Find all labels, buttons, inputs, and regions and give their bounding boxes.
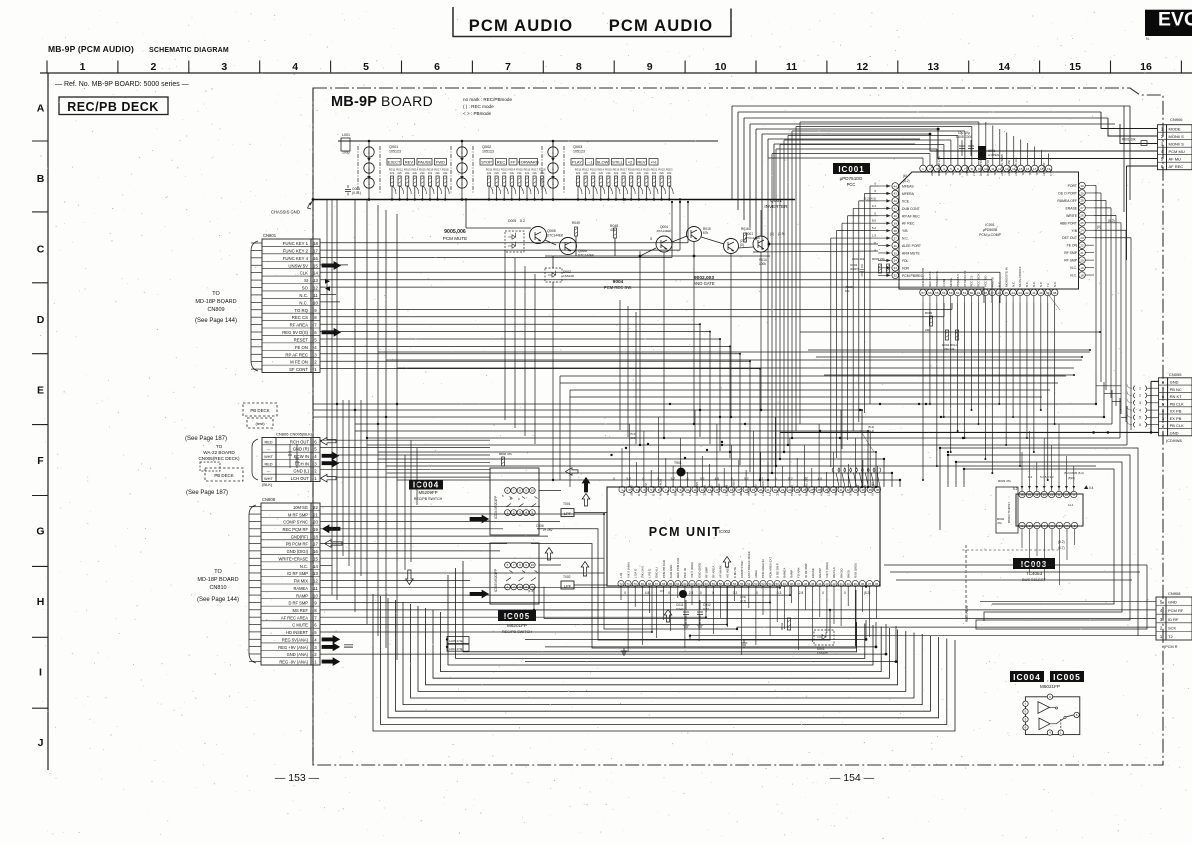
wire main horizontal bus [313, 199, 795, 201]
wire cluster drop verticals [505, 242, 761, 487]
op-amp label IC003 black [1013, 558, 1055, 569]
svg-text:DTC114EK: DTC114EK [745, 236, 760, 240]
title box PCM AUDIO [453, 7, 731, 37]
arrow up into pcm pin [581, 562, 589, 577]
svg-text:65: 65 [669, 582, 673, 586]
svg-text:4: 4 [292, 61, 298, 73]
transistor group Q001 [358, 141, 401, 199]
svg-text:IC004: IC004 [1013, 672, 1041, 682]
svg-text:N.C.: N.C. [958, 170, 962, 176]
svg-text:XX PB: XX PB [1170, 409, 1182, 414]
svg-text:RAMEA: RAMEA [783, 568, 787, 578]
svg-text:(0): (0) [740, 243, 744, 247]
wire horizontal band [313, 404, 1127, 480]
svg-text:N.C.: N.C. [902, 237, 909, 241]
IC001 top pin labels [930, 154, 1053, 176]
svg-text:L001: L001 [342, 133, 350, 137]
svg-text:TO: TO [216, 444, 223, 449]
svg-text:D RE ON P: D RE ON P [775, 563, 779, 578]
svg-text:CN808: CN808 [262, 497, 276, 502]
svg-text:GND (L): GND (L) [293, 469, 309, 474]
svg-text:COMP SYNC: COMP SYNC [740, 561, 744, 578]
svg-text:72: 72 [619, 582, 623, 586]
svg-text:CN810: CN810 [209, 585, 226, 591]
svg-text:VIK 5 (DIGI): VIK 5 (DIGI) [690, 562, 694, 578]
svg-text:2.8: 2.8 [799, 591, 804, 595]
svg-text:10: 10 [313, 300, 318, 305]
svg-text:(BLK): (BLK) [262, 482, 273, 487]
svg-text:18: 18 [313, 241, 318, 246]
svg-text:22k: 22k [502, 171, 507, 175]
svg-text:29: 29 [1080, 191, 1084, 195]
svg-text:22k: 22k [652, 171, 657, 175]
svg-text:(See Page 187): (See Page 187) [186, 490, 228, 496]
function label boxes Q001 [387, 159, 447, 166]
arrow down near pcm [406, 570, 414, 585]
svg-text:54: 54 [942, 291, 946, 295]
svg-text:(1.2): (1.2) [528, 589, 534, 593]
svg-text:CLK: CLK [300, 271, 308, 276]
wire trunk verticals center-left [337, 200, 397, 661]
svg-text:13: 13 [927, 61, 939, 73]
svg-text:38: 38 [1053, 291, 1057, 295]
svg-text:0: 0 [668, 591, 670, 595]
svg-text:Y/B: Y/B [1072, 229, 1078, 233]
svg-text:IC005: IC005 [504, 612, 530, 621]
wire top rail [338, 140, 718, 142]
svg-text:15: 15 [313, 263, 318, 268]
svg-text:GND: GND [1170, 430, 1179, 435]
svg-text:12: 12 [857, 61, 869, 73]
svg-text:IC002: IC002 [719, 529, 731, 534]
svg-text:N.C.: N.C. [300, 564, 308, 569]
dashed box test [247, 418, 273, 428]
svg-text:FUNC KEY 1: FUNC KEY 1 [283, 241, 309, 246]
svg-text:L IN: L IN [619, 573, 623, 578]
svg-text:REC/PB DECK: REC/PB DECK [67, 100, 159, 114]
diode block D005 dashed [505, 231, 524, 252]
svg-text:35: 35 [894, 251, 898, 255]
svg-text:(5.2): (5.2) [1108, 219, 1115, 223]
arrow left hollow at switch top [566, 468, 579, 476]
svg-text:50: 50 [776, 582, 780, 586]
svg-text:27: 27 [1080, 206, 1084, 210]
svg-text:RESET: RESET [294, 337, 309, 342]
IC IC001 body [899, 172, 1079, 289]
svg-text:1SS105: 1SS105 [817, 651, 828, 655]
svg-text:22: 22 [313, 505, 318, 510]
arrow CN808 REG 5V [322, 636, 340, 644]
svg-text:0: 0 [804, 477, 806, 481]
svg-text:RF AREA: RF AREA [290, 323, 309, 328]
svg-text:49: 49 [783, 582, 787, 586]
svg-text:IC003: IC003 [1021, 560, 1047, 569]
IC001 left pins [864, 182, 924, 279]
svg-text:REC: REC [497, 160, 506, 165]
svg-text:41: 41 [840, 582, 844, 586]
svg-text:< > : PBmode: < > : PBmode [463, 111, 492, 116]
svg-text:10: 10 [715, 61, 727, 73]
svg-text:AF REC: AF REC [1169, 164, 1184, 169]
svg-text:SO: SO [302, 286, 309, 291]
svg-text:RCH OUT: RCH OUT [290, 439, 310, 444]
svg-text:MONI/ S: MONI/ S [1169, 134, 1185, 139]
svg-text:46: 46 [998, 291, 1002, 295]
svg-text:EJECT: EJECT [388, 160, 401, 165]
svg-text:CN005(REC DECK): CN005(REC DECK) [198, 456, 240, 461]
svg-text:XCE: XCE [902, 199, 910, 203]
svg-text:67k: 67k [703, 231, 709, 235]
svg-text:22k 22k: 22k 22k [944, 347, 955, 351]
svg-text:10: 10 [531, 489, 535, 493]
svg-text:N.C.: N.C. [1021, 170, 1025, 176]
svg-text:A: A [37, 103, 45, 115]
svg-text:MFEAS: MFEAS [902, 185, 914, 189]
svg-text:10: 10 [531, 563, 535, 567]
svg-text:5.2: 5.2 [520, 219, 525, 223]
svg-text:AF MARK: AF MARK [719, 565, 723, 578]
svg-text:DUB IN: DUB IN [681, 486, 685, 496]
svg-text:19: 19 [1080, 266, 1084, 270]
svg-text:PCC CS: PCC CS [970, 276, 974, 287]
svg-text:N.C.: N.C. [1011, 281, 1015, 287]
grid ruler column ticks [46, 61, 48, 74]
svg-text:GND(DIGI): GND(DIGI) [695, 482, 699, 496]
op-amp pair block [1023, 694, 1080, 735]
svg-text:CN806 CN005(BLK): CN806 CN005(BLK) [276, 432, 313, 437]
svg-text:22k: 22k [420, 171, 425, 175]
resistor bank Q003 [575, 168, 673, 201]
svg-text:REC CS: REC CS [292, 315, 308, 320]
svg-text:WRITE+ERASE: WRITE+ERASE [279, 556, 309, 561]
svg-text:22k: 22k [494, 171, 499, 175]
svg-text:PCM MUTE: PCM MUTE [935, 271, 939, 287]
svg-text:36: 36 [876, 488, 880, 492]
ground under C012 [697, 622, 703, 629]
connector CN806 [262, 438, 320, 482]
svg-text:47: 47 [797, 582, 801, 586]
grid ruler top line [40, 72, 1192, 74]
svg-text:13: 13 [313, 278, 318, 283]
svg-text:36: 36 [875, 582, 879, 586]
svg-text:(CD9/W8: (CD9/W8 [1166, 439, 1182, 443]
wire right nested rectangles around IC003 [940, 448, 1147, 636]
wire transistor cluster links [466, 200, 770, 301]
svg-text:ERASE: ERASE [811, 568, 815, 578]
svg-text:67: 67 [655, 582, 659, 586]
svg-text:54: 54 [747, 582, 751, 586]
svg-text:30: 30 [1080, 184, 1084, 188]
connector CN801 [262, 239, 320, 373]
dashed box REC DECK [200, 462, 220, 471]
svg-text:22k: 22k [629, 171, 634, 175]
svg-text:64: 64 [676, 582, 680, 586]
svg-text:22k: 22k [435, 171, 440, 175]
wire IC001 top pin fan right [986, 122, 1049, 165]
svg-text:0.3: 0.3 [777, 591, 782, 595]
CN055 ground loop wire [780, 381, 1159, 433]
svg-text:FWD: FWD [436, 160, 445, 165]
connector CN908 [1156, 597, 1192, 640]
svg-text:17: 17 [313, 248, 318, 253]
svg-text:22k: 22k [667, 171, 672, 175]
PCM bottom value labels [624, 591, 870, 595]
svg-text:PCM AUDIO: PCM AUDIO [469, 17, 574, 35]
function label boxes Q002 [480, 159, 539, 166]
capacitor C005 C004 above IC001 [959, 140, 974, 156]
svg-text:1: 1 [1139, 386, 1141, 390]
arrow up at switch black [582, 478, 590, 493]
svg-text:FM MIX: FM MIX [294, 579, 309, 584]
svg-text:20: 20 [1080, 258, 1084, 262]
svg-text:MONO/STE IN: MONO/STE IN [1004, 267, 1008, 287]
svg-text:24: 24 [1080, 229, 1084, 233]
svg-text:22k: 22k [659, 171, 664, 175]
svg-text:RXD (DIGI): RXD (DIGI) [854, 563, 858, 578]
svg-text:L001 10k: L001 10k [852, 257, 865, 261]
svg-text:INT SQ TEST: INT SQ TEST [1014, 158, 1018, 177]
svg-text:PB DECK: PB DECK [214, 473, 233, 478]
svg-text:RF SMP: RF SMP [1064, 259, 1078, 263]
svg-text:RM SO: RM SO [839, 568, 843, 578]
svg-text:RM CLK: RM CLK [832, 567, 836, 578]
svg-text:GND: GND [1170, 380, 1179, 385]
svg-text:M FE ON: M FE ON [290, 360, 308, 365]
svg-text:0: 0 [687, 477, 689, 481]
wire CN801 rows to top array [320, 201, 689, 258]
wire nested bottom loops [373, 561, 955, 731]
svg-text:1.9: 1.9 [872, 234, 877, 238]
svg-text:13: 13 [313, 571, 318, 576]
svg-text:N.C.: N.C. [993, 170, 997, 176]
svg-text:R003 22k: R003 22k [872, 257, 885, 261]
svg-text:RACT IN: RACT IN [754, 484, 758, 496]
svg-text:D005: D005 [508, 219, 516, 223]
svg-text:R009: R009 [925, 311, 933, 315]
svg-text:×½: ×½ [651, 160, 657, 165]
svg-text:MS REF: MS REF [293, 608, 309, 613]
svg-text:9: 9 [647, 61, 653, 73]
svg-text:RAMEA OFF: RAMEA OFF [1057, 199, 1077, 203]
svg-text:25: 25 [1080, 221, 1084, 225]
CN055 inline plugs [1127, 384, 1159, 427]
svg-text:61: 61 [698, 582, 702, 586]
junction dots scattered [312, 198, 1105, 648]
svg-text:(0.4): (0.4) [868, 429, 874, 433]
svg-text:DTC144EK: DTC144EK [578, 254, 595, 258]
svg-text:3: 3 [221, 61, 227, 73]
svg-text:RF SMP: RF SMP [930, 165, 934, 176]
svg-text:PB CLK: PB CLK [1170, 423, 1185, 428]
svg-text:ALEE PORT: ALEE PORT [902, 244, 921, 248]
svg-text:MCI: MCI [783, 491, 787, 496]
arrow into IC004 block [470, 515, 489, 523]
svg-text:22k: 22k [397, 171, 402, 175]
svg-text:0.5: 0.5 [660, 589, 665, 593]
svg-text:37: 37 [868, 582, 872, 586]
svg-text:GRASP: GRASP [818, 568, 822, 578]
svg-text:MFERA: MFERA [902, 192, 915, 196]
svg-text:RM SI: RM SI [846, 570, 850, 578]
svg-text:PCM AREA IN: PCM AREA IN [761, 560, 765, 578]
svg-text:STILL: STILL [612, 160, 623, 165]
svg-text:INT B TEST: INT B TEST [1007, 160, 1011, 176]
svg-text:MB-9P: MB-9P [331, 94, 377, 110]
svg-text:PCM MU: PCM MU [1169, 149, 1185, 154]
svg-text:PCM MUTE: PCM MUTE [443, 236, 468, 241]
svg-text:4.5: 4.5 [715, 477, 720, 481]
connector CN808 [261, 503, 320, 665]
svg-text:(0.01): (0.01) [352, 191, 361, 195]
svg-text:50: 50 [970, 291, 974, 295]
svg-text:FD NAK: FD NAK [797, 567, 801, 578]
svg-text:22k: 22k [591, 171, 596, 175]
svg-text:MB-9P (PCM AUDIO): MB-9P (PCM AUDIO) [48, 44, 134, 54]
IC IC002 PCM UNIT body [607, 487, 880, 586]
svg-text:Y/B: Y/B [902, 229, 908, 233]
svg-text:5.2: 5.2 [788, 477, 793, 481]
svg-text:11: 11 [786, 61, 797, 73]
svg-text:PCM AUDIO: PCM AUDIO [609, 17, 714, 35]
svg-text:PLAY: PLAY [572, 160, 582, 165]
svg-text:×2: ×2 [628, 160, 633, 165]
svg-text:FE ON: FE ON [295, 345, 308, 350]
board outline MB-9P [313, 88, 1163, 765]
svg-text:1SS106: 1SS106 [563, 274, 574, 278]
wire IC003 dash line [962, 549, 1058, 551]
svg-text:70: 70 [634, 582, 638, 586]
transformer T901 dot [677, 468, 686, 477]
arrow CN808 REG +9V [322, 643, 340, 651]
svg-text:DTC144EK: DTC144EK [547, 234, 564, 238]
svg-text:REG 5V(ANA): REG 5V(ANA) [282, 637, 309, 642]
grid row ticks [32, 140, 49, 142]
svg-text:T901: T901 [674, 461, 682, 465]
svg-text:13: 13 [1043, 493, 1047, 497]
svg-text:66: 66 [662, 582, 666, 586]
svg-text:22k: 22k [517, 171, 522, 175]
svg-text:LPF: LPF [564, 511, 572, 516]
svg-text:COMP SYNC: COMP SYNC [283, 520, 308, 525]
transformer T902 dot [679, 590, 687, 598]
wire IC001 left pin bundle to band [831, 186, 878, 467]
svg-text:TO RQ: TO RQ [294, 308, 308, 313]
svg-text:PCC SI: PCC SI [991, 277, 995, 287]
ground pcm left [621, 648, 627, 655]
wire misc diagonal pointers [528, 290, 1060, 603]
svg-text:51: 51 [963, 291, 967, 295]
svg-text:FF: FF [511, 160, 516, 165]
svg-text:MON/ STE OUT: MON/ STE OUT [1000, 154, 1004, 176]
svg-text:2.8: 2.8 [689, 591, 694, 595]
arrow on CN801 pin 6 REG 5V [322, 329, 341, 337]
transistor group Q003 [542, 141, 585, 199]
svg-text:GND (L): GND (L) [655, 567, 659, 578]
svg-text:22k: 22k [510, 171, 515, 175]
svg-text:REG 5V D(S): REG 5V D(S) [282, 330, 308, 335]
svg-text:PB DECK: PB DECK [250, 408, 269, 413]
svg-text:(6): (6) [903, 174, 907, 178]
svg-text:15: 15 [313, 556, 318, 561]
svg-text:N.C.: N.C. [997, 281, 1001, 287]
PCM UNIT bottom pin labels [619, 551, 857, 578]
svg-text:55: 55 [740, 582, 744, 586]
svg-text:PCM ALF: PCM ALF [717, 484, 721, 497]
IC001 bottom pins [920, 289, 1058, 303]
wire band drops to PCM and IC003 [861, 374, 1127, 487]
svg-text:PAUSE: PAUSE [418, 160, 432, 165]
svg-text:5.2: 5.2 [744, 477, 749, 481]
svg-text:39: 39 [894, 222, 898, 226]
svg-text:20: 20 [313, 520, 318, 525]
svg-text:22k: 22k [443, 171, 448, 175]
svg-text:μPD7510G: μPD7510G [840, 176, 863, 181]
ground pcm mid [741, 640, 747, 647]
svg-text:58: 58 [719, 582, 723, 586]
svg-text:CN809: CN809 [207, 307, 224, 313]
capacitor C801 on CN806 [288, 444, 292, 468]
arrow CN808 REG -9V [322, 658, 340, 666]
svg-text:PB CON: PB CON [856, 485, 860, 496]
svg-text:11: 11 [313, 293, 318, 298]
wire verticals between CN801 and CN806 [313, 88, 332, 765]
svg-text:N.C.: N.C. [1070, 274, 1077, 278]
svg-text:ANO GATE: ANO GATE [693, 281, 715, 286]
svg-text:2.7: 2.7 [972, 172, 976, 177]
svg-text:GND (R): GND (R) [293, 447, 310, 452]
svg-text:REG -9V (ANA): REG -9V (ANA) [279, 660, 308, 665]
svg-text:T3: T3 [1046, 283, 1050, 287]
wire IC001 top pin fan left [768, 122, 979, 480]
svg-text:22k: 22k [644, 171, 649, 175]
svg-text:22k: 22k [576, 171, 581, 175]
svg-text:M5003 TC40531: M5003 TC40531 [1007, 502, 1011, 523]
svg-text:5: 5 [1139, 416, 1141, 420]
svg-text:N.C.: N.C. [1053, 281, 1057, 287]
svg-text:45: 45 [811, 582, 815, 586]
svg-text:MR RET: MR RET [724, 485, 728, 496]
svg-text:JOG OUT: JOG OUT [1042, 163, 1046, 177]
svg-text:0: 0 [775, 477, 777, 481]
svg-text:VIK 5 (DIGI): VIK 5 (DIGI) [825, 562, 829, 578]
svg-text:PCC SO: PCC SO [984, 275, 988, 287]
svg-text:5.2 5.2 3.2: 5.2 5.2 3.2 [1040, 475, 1054, 479]
svg-text:REG +9V (ANA): REG +9V (ANA) [278, 645, 308, 650]
svg-text:T001: T001 [563, 502, 571, 506]
svg-text:55: 55 [935, 291, 939, 295]
svg-text:C: C [37, 244, 45, 256]
svg-text:no mark : REC/PBmode: no mark : REC/PBmode [463, 97, 512, 102]
svg-text:RF AREA: RF AREA [712, 566, 716, 578]
wire CN801 serial rows to IC001 [320, 265, 1000, 317]
svg-text:11: 11 [1057, 493, 1060, 497]
svg-text:21: 21 [1080, 251, 1084, 255]
svg-text:40: 40 [894, 214, 898, 218]
svg-text:18: 18 [313, 534, 318, 539]
arrow up below pcm [664, 610, 672, 623]
svg-text:0.047: 0.047 [676, 607, 684, 611]
svg-text:DE O PORT: DE O PORT [1058, 191, 1077, 195]
svg-text:PCM REC IN: PCM REC IN [659, 479, 663, 496]
svg-text:BCW IN: BCW IN [294, 454, 309, 459]
resistor R004 R011 under IC001 [945, 330, 948, 340]
arrow into IC005 block [470, 590, 489, 598]
arrow CN808 PB PCM RF [325, 540, 343, 548]
capacitor C802 on CN806 [295, 444, 299, 468]
svg-text:M5209FP: M5209FP [418, 490, 437, 495]
REC/PB DECK label [59, 97, 168, 115]
op-amp label IC004 IC005 black [1010, 671, 1044, 682]
